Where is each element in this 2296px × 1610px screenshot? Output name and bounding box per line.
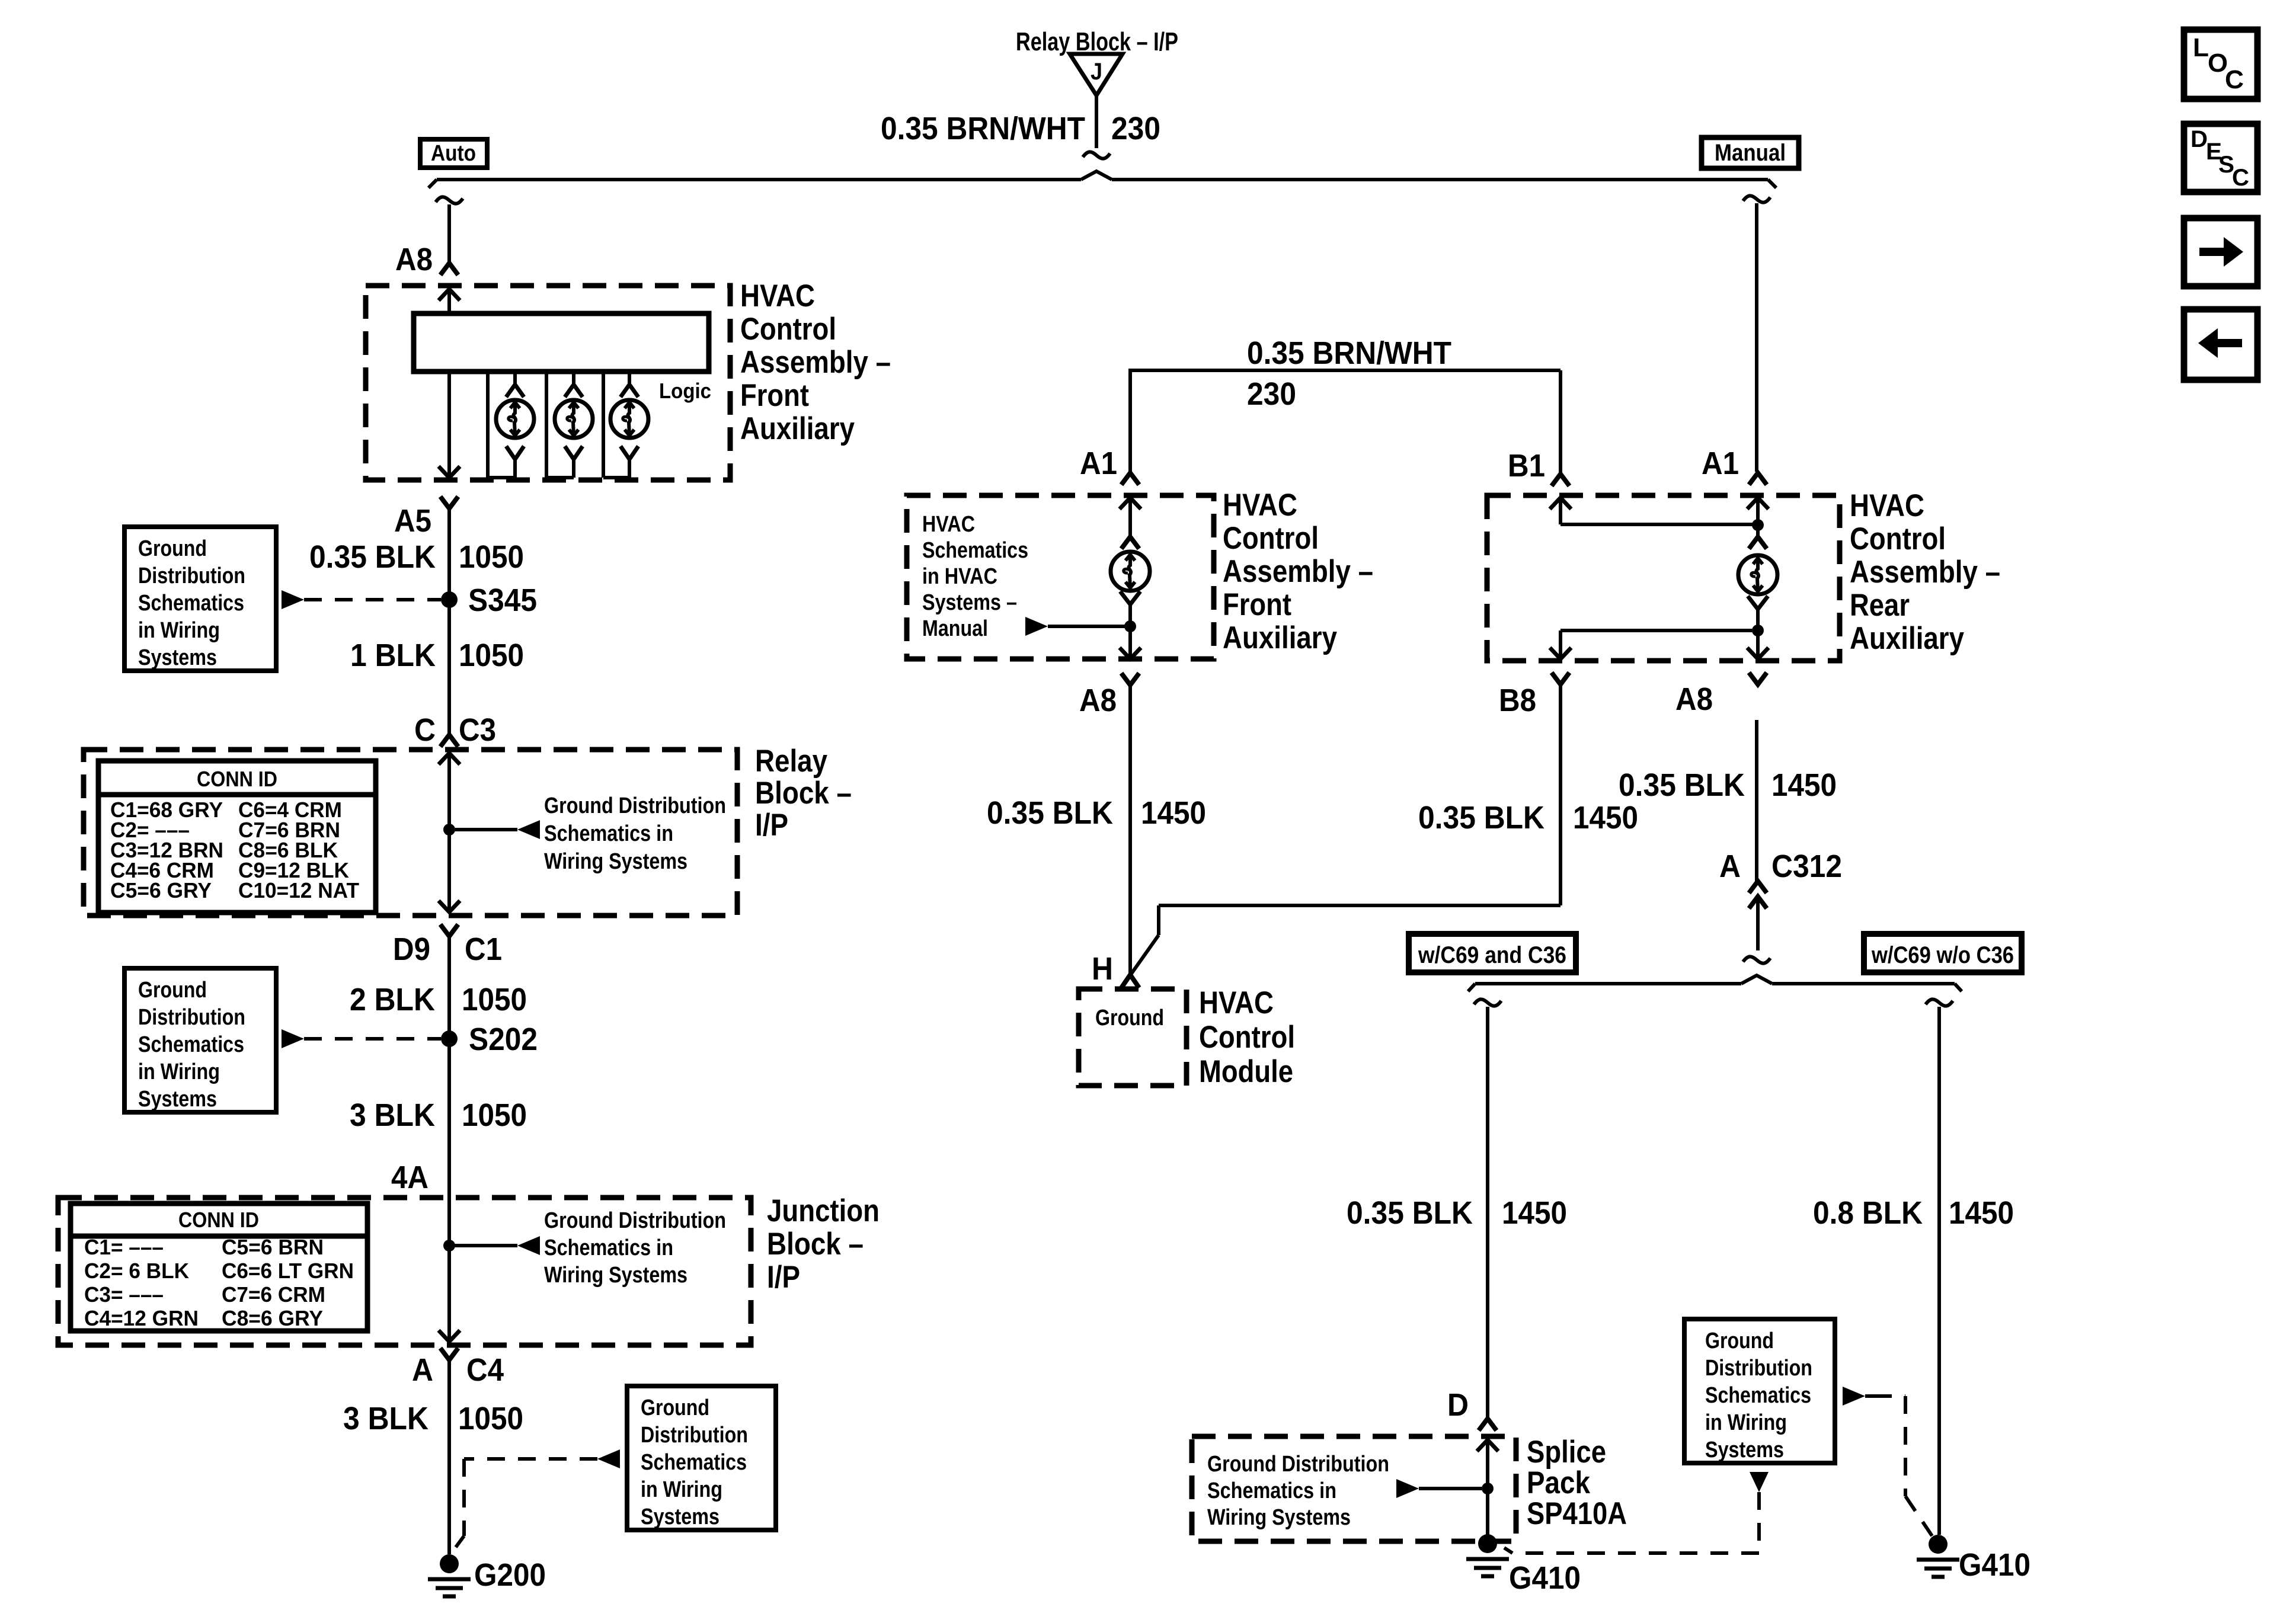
svg-text:Assembly –: Assembly – <box>1223 554 1373 589</box>
svg-text:Distribution: Distribution <box>1705 1356 1812 1381</box>
Manual option box <box>1702 137 1799 168</box>
HVAC control assembly front auxiliary dashed box <box>366 286 730 480</box>
svg-text:SP410A: SP410A <box>1527 1496 1627 1531</box>
rear aux internal wiring B1 branch <box>1550 498 1764 531</box>
connector A1 (front aux manual) <box>1080 446 1139 485</box>
svg-text:1050: 1050 <box>458 1401 523 1436</box>
svg-text:in HVAC: in HVAC <box>922 564 997 589</box>
svg-text:Pack: Pack <box>1527 1465 1590 1500</box>
svg-text:L: L <box>2193 33 2209 62</box>
HVAC control module dashed box with Ground pin <box>1079 989 1187 1086</box>
svg-text:C5=6 GRY: C5=6 GRY <box>110 878 212 902</box>
wire C4 to ground G200 <box>447 1360 451 1554</box>
svg-text:Schematics in: Schematics in <box>1207 1478 1336 1503</box>
svg-text:Front: Front <box>1223 587 1291 622</box>
svg-text:C3= –––: C3= ––– <box>84 1282 164 1307</box>
next page arrow nav box <box>2184 218 2257 286</box>
CONN ID table junction block <box>71 1204 367 1331</box>
wire A8 to H <box>1128 685 1132 975</box>
svg-text:Schematics: Schematics <box>138 1032 244 1057</box>
svg-text:in Wiring: in Wiring <box>641 1477 722 1502</box>
svg-text:1450: 1450 <box>1573 800 1638 836</box>
svg-text:Control: Control <box>1223 521 1319 556</box>
svg-text:Block –: Block – <box>767 1227 864 1262</box>
svg-text:Wiring Systems: Wiring Systems <box>544 849 687 874</box>
svg-text:1050: 1050 <box>462 982 527 1017</box>
svg-text:Distribution: Distribution <box>641 1423 748 1448</box>
ground G410 right <box>1917 1535 2030 1583</box>
connector C C3 <box>414 712 496 748</box>
connector B8 rear aux <box>1499 673 1569 718</box>
connector D splice pack <box>1447 1387 1496 1430</box>
wire label 3 BLK 1050 <box>350 1097 527 1133</box>
svg-text:C: C <box>2225 65 2244 94</box>
svg-text:Logic: Logic <box>659 379 711 403</box>
wire A8 down to C312 <box>1755 720 1758 881</box>
svg-text:1050: 1050 <box>459 539 524 575</box>
wire B8 down to jog <box>1559 684 1562 905</box>
svg-text:I/P: I/P <box>767 1260 800 1295</box>
svg-text:0.35 BLK: 0.35 BLK <box>987 795 1113 831</box>
CONN ID table relay block <box>98 761 376 913</box>
svg-text:C7=6 CRM: C7=6 CRM <box>222 1282 325 1307</box>
svg-text:Rear: Rear <box>1850 588 1910 623</box>
svg-text:C6=6 LT GRN: C6=6 LT GRN <box>222 1259 354 1283</box>
svg-text:C8=6 GRY: C8=6 GRY <box>222 1306 323 1330</box>
svg-text:HVAC: HVAC <box>1199 985 1274 1020</box>
dashed reference path to G200 <box>456 1449 620 1547</box>
svg-text:3 BLK: 3 BLK <box>350 1097 435 1133</box>
svg-text:1450: 1450 <box>1502 1195 1567 1231</box>
wire w/C69 w/o C36 branch to G410 <box>1926 999 1953 1535</box>
svg-text:Control: Control <box>740 312 836 347</box>
svg-text:0.35 BLK: 0.35 BLK <box>1619 767 1745 803</box>
w/C69 w/o C36 option box <box>1864 934 2022 972</box>
svg-text:1050: 1050 <box>459 638 524 673</box>
ground G410 splice <box>1466 1534 1581 1596</box>
relay block I/P component label <box>755 744 852 843</box>
svg-text:230: 230 <box>1111 111 1160 146</box>
svg-text:C2= 6 BLK: C2= 6 BLK <box>84 1259 189 1283</box>
svg-text:Schematics in: Schematics in <box>544 821 673 846</box>
svg-text:Auxiliary: Auxiliary <box>1850 621 1964 656</box>
ground distribution schematics reference box 4 <box>1684 1319 1835 1463</box>
wire A5 to S345 <box>447 508 451 600</box>
svg-text:0.35 BRN/WHT: 0.35 BRN/WHT <box>1247 335 1451 371</box>
wire Manual drop to rear aux A1 <box>1743 196 1770 472</box>
previous page arrow nav box <box>2184 309 2257 380</box>
Auto option box <box>420 139 487 168</box>
logic module bar <box>414 313 709 372</box>
svg-text:Manual: Manual <box>1715 140 1786 166</box>
svg-text:CONN ID: CONN ID <box>197 767 277 791</box>
connector A8 rear aux <box>1675 673 1767 717</box>
svg-text:1450: 1450 <box>1141 795 1206 831</box>
wire label 0.35 BLK 1450 (SP410A) <box>1347 1195 1567 1231</box>
connector A5 <box>394 497 458 539</box>
wire label 0.35 BLK 1450 (B8) <box>1418 800 1638 836</box>
wire A8 entry arrow into logic bar <box>439 289 460 313</box>
svg-text:in Wiring: in Wiring <box>1705 1410 1787 1435</box>
svg-text:in Wiring: in Wiring <box>138 1060 220 1084</box>
DESC nav box <box>2184 124 2257 192</box>
wire C1 to S202 <box>447 936 451 1039</box>
svg-text:A: A <box>1719 849 1741 884</box>
svg-text:Ground: Ground <box>138 536 207 561</box>
wire through relay block with junction <box>439 753 460 912</box>
svg-text:C4: C4 <box>466 1352 504 1388</box>
splice S345 <box>441 582 537 618</box>
svg-text:0.35 BRN/WHT: 0.35 BRN/WHT <box>881 111 1085 146</box>
ground distribution schematics label relay block <box>544 793 726 874</box>
junction block I/P dashed box <box>58 1198 751 1345</box>
svg-text:D: D <box>1447 1387 1469 1423</box>
svg-text:4A: 4A <box>391 1160 428 1195</box>
svg-text:Auxiliary: Auxiliary <box>1223 620 1337 655</box>
svg-text:Control: Control <box>1199 1020 1295 1055</box>
svg-text:1450: 1450 <box>1771 767 1837 803</box>
wire label 0.35 BRN/WHT 230 (front aux manual feed) <box>1247 335 1451 412</box>
options brace w/C69 <box>1468 975 1962 991</box>
wire Auto drop to A8 <box>436 197 463 263</box>
w/C69 and C36 option box <box>1409 934 1576 972</box>
bus wire from Auto to Manual with option bump <box>428 171 1776 188</box>
svg-text:C5=6 BRN: C5=6 BRN <box>222 1235 324 1259</box>
svg-text:Systems: Systems <box>641 1505 720 1529</box>
svg-text:Wiring Systems: Wiring Systems <box>1207 1505 1351 1530</box>
connector H at HVAC control module <box>1092 951 1139 988</box>
wire label 0.35 BLK 1450 (A8 rear) <box>1619 767 1837 803</box>
relay block junction triangle J <box>1070 54 1123 95</box>
HVAC control module component label <box>1199 985 1295 1089</box>
svg-text:Schematics: Schematics <box>641 1450 747 1475</box>
svg-text:Auxiliary: Auxiliary <box>740 411 855 446</box>
splice pack SP410A component label <box>1527 1435 1627 1531</box>
HVAC control assembly front auxiliary label <box>740 279 891 446</box>
rear aux actuator with connectors <box>1738 498 1777 659</box>
svg-text:B8: B8 <box>1499 683 1536 718</box>
svg-text:Splice: Splice <box>1527 1435 1606 1470</box>
wire through splice pack to G410 <box>1477 1440 1498 1536</box>
svg-text:Auto: Auto <box>431 141 476 166</box>
harness break at wire 230 <box>1083 152 1110 158</box>
ground distribution schematics reference box 1 <box>124 527 276 671</box>
svg-text:Ground Distribution: Ground Distribution <box>544 793 726 818</box>
svg-text:Schematics in: Schematics in <box>544 1235 673 1260</box>
svg-text:Relay: Relay <box>755 744 827 779</box>
wire label 2 BLK 1050 <box>350 982 527 1017</box>
svg-text:C: C <box>2232 165 2249 191</box>
wire label 3 BLK 1050 (G200) <box>343 1401 523 1436</box>
wire label 1 BLK 1050 <box>350 638 524 673</box>
svg-text:HVAC: HVAC <box>1223 488 1297 523</box>
svg-text:Ground Distribution: Ground Distribution <box>1207 1452 1389 1477</box>
svg-text:Module: Module <box>1199 1054 1293 1089</box>
svg-text:1050: 1050 <box>462 1097 527 1133</box>
reference arrow splice pack <box>1396 1479 1483 1498</box>
wire label 0.8 BLK 1450 <box>1813 1195 2014 1231</box>
dashed reference path to splice G410 <box>1504 1472 1769 1553</box>
svg-text:Ground: Ground <box>1705 1329 1774 1353</box>
reference arrow manual <box>1025 617 1127 636</box>
svg-text:2 BLK: 2 BLK <box>350 982 435 1017</box>
svg-text:Assembly –: Assembly – <box>740 345 891 380</box>
connector A8 (front aux manual) <box>1079 673 1139 718</box>
svg-text:Systems –: Systems – <box>922 590 1017 615</box>
svg-text:I/P: I/P <box>755 808 788 843</box>
svg-text:230: 230 <box>1247 376 1296 412</box>
svg-text:C312: C312 <box>1771 849 1842 884</box>
dashed reference path to right G410 <box>1843 1387 1932 1536</box>
wire label 0.35 BLK 1050 <box>309 539 524 575</box>
svg-text:S202: S202 <box>469 1022 538 1057</box>
svg-text:0.8 BLK: 0.8 BLK <box>1813 1195 1923 1231</box>
svg-text:Systems: Systems <box>138 1087 217 1112</box>
svg-text:G410: G410 <box>1959 1547 2030 1583</box>
actuator front aux manual with connectors <box>1111 498 1150 659</box>
svg-text:Front: Front <box>740 378 809 413</box>
connector A8 front auxiliary <box>395 242 458 277</box>
actuator branch 1 (front auxiliary) <box>488 372 534 478</box>
ground distribution schematics label splice pack <box>1207 1452 1389 1530</box>
svg-text:HVAC: HVAC <box>740 279 815 313</box>
LOC nav box <box>2184 30 2257 99</box>
svg-text:Block –: Block – <box>755 776 852 811</box>
reference arrow junction block <box>449 1236 540 1255</box>
svg-text:Assembly –: Assembly – <box>1850 555 2000 590</box>
wire S345 to connector C3 <box>447 600 451 735</box>
svg-text:G200: G200 <box>474 1557 546 1593</box>
svg-text:1450: 1450 <box>1949 1195 2014 1231</box>
ground distribution schematics reference box 3 <box>627 1386 776 1530</box>
reference arrow to S345 <box>282 590 441 609</box>
svg-text:Control: Control <box>1850 521 1946 556</box>
wire 230 branch to front aux manual and rear aux B1 <box>1128 370 1560 474</box>
HVAC control assembly front auxiliary (middle) component label <box>1223 488 1373 655</box>
svg-text:S345: S345 <box>468 582 537 618</box>
svg-text:C4=12 GRN: C4=12 GRN <box>84 1306 199 1330</box>
actuator branch 3 (front auxiliary) <box>603 372 648 478</box>
svg-text:C10=12 NAT: C10=12 NAT <box>238 878 359 902</box>
svg-text:C3: C3 <box>459 712 496 748</box>
svg-text:3 BLK: 3 BLK <box>343 1401 428 1436</box>
svg-text:Schematics: Schematics <box>1705 1383 1811 1408</box>
harness break above options brace <box>1743 956 1770 963</box>
svg-text:Systems: Systems <box>1705 1438 1784 1462</box>
svg-text:J: J <box>1091 59 1102 85</box>
splice S202 <box>441 1022 538 1057</box>
svg-text:Ground: Ground <box>138 978 207 1003</box>
HVAC control assembly rear auxiliary dashed box <box>1487 495 1840 661</box>
wire label 0.35 BLK 1450 (module ground) <box>987 795 1206 831</box>
connector B1 rear aux <box>1508 448 1569 486</box>
svg-text:Schematics: Schematics <box>922 538 1028 563</box>
svg-text:A1: A1 <box>1702 446 1739 481</box>
ground distribution schematics label junction block <box>544 1208 726 1288</box>
svg-text:w/C69 and C36: w/C69 and C36 <box>1418 942 1566 968</box>
connector A C312 inline <box>1719 849 1842 950</box>
reference arrow to S202 <box>282 1029 441 1048</box>
svg-text:D9: D9 <box>393 932 430 967</box>
ground G200 <box>428 1554 546 1596</box>
svg-text:Manual: Manual <box>922 616 988 641</box>
svg-text:CONN ID: CONN ID <box>178 1208 259 1232</box>
wire A5 exit with arrow <box>439 372 460 478</box>
svg-text:Distribution: Distribution <box>138 564 245 588</box>
svg-text:A8: A8 <box>1079 683 1117 718</box>
svg-text:w/C69 w/o C36: w/C69 w/o C36 <box>1871 942 2014 968</box>
svg-text:G410: G410 <box>1509 1560 1581 1596</box>
svg-text:A5: A5 <box>394 503 431 539</box>
svg-text:A1: A1 <box>1080 446 1117 481</box>
svg-text:D: D <box>2191 126 2208 152</box>
svg-text:Wiring Systems: Wiring Systems <box>544 1263 687 1288</box>
svg-text:1 BLK: 1 BLK <box>350 638 436 673</box>
wire S202 to junction block <box>447 1039 451 1198</box>
wire w/C69 and C36 branch to D <box>1474 999 1501 1419</box>
rear aux internal wiring B8 branch <box>1550 630 1758 659</box>
svg-text:Ground: Ground <box>1095 1006 1164 1030</box>
svg-text:Ground: Ground <box>641 1395 709 1420</box>
svg-text:C1: C1 <box>465 932 502 967</box>
svg-text:A8: A8 <box>1675 681 1713 717</box>
svg-text:H: H <box>1092 951 1113 987</box>
HVAC control assembly front auxiliary (manual) dashed box <box>907 495 1214 659</box>
svg-text:Systems: Systems <box>138 645 217 670</box>
svg-text:HVAC: HVAC <box>922 512 975 537</box>
wire B8 to H jog <box>1131 905 1560 974</box>
splice pack SP410A dashed box <box>1192 1436 1516 1541</box>
reference arrow relay block <box>449 820 540 839</box>
wire from relay block to 230 splice <box>1095 95 1098 148</box>
wire label 0.35 BRN/WHT 230 <box>881 111 1160 146</box>
actuator branch 2 (front auxiliary) <box>546 372 593 478</box>
wire through junction block with junction <box>439 1198 460 1342</box>
svg-text:A8: A8 <box>395 242 433 277</box>
ground distribution schematics reference box 2 <box>124 968 276 1112</box>
connector A1 rear aux <box>1702 446 1767 485</box>
svg-text:0.35 BLK: 0.35 BLK <box>1347 1195 1473 1231</box>
svg-text:A: A <box>412 1352 433 1388</box>
svg-text:0.35 BLK: 0.35 BLK <box>309 539 436 575</box>
svg-text:in Wiring: in Wiring <box>138 618 220 643</box>
svg-text:Junction: Junction <box>767 1193 880 1228</box>
HVAC control assembly rear auxiliary component label <box>1850 488 2000 656</box>
HVAC schematics in HVAC systems manual label <box>922 512 1028 641</box>
svg-text:C1= –––: C1= ––– <box>84 1235 164 1259</box>
svg-text:0.35 BLK: 0.35 BLK <box>1418 800 1544 836</box>
svg-text:B1: B1 <box>1508 448 1545 484</box>
junction block I/P component label <box>767 1193 880 1295</box>
svg-text:C: C <box>414 712 436 748</box>
connector D9 C1 <box>393 924 502 967</box>
connector A C4 <box>412 1348 504 1388</box>
svg-text:Distribution: Distribution <box>138 1005 245 1030</box>
relay block I/P dashed box <box>84 750 737 916</box>
svg-text:Ground Distribution: Ground Distribution <box>544 1208 726 1233</box>
svg-text:Schematics: Schematics <box>138 591 244 616</box>
svg-text:HVAC: HVAC <box>1850 488 1924 523</box>
